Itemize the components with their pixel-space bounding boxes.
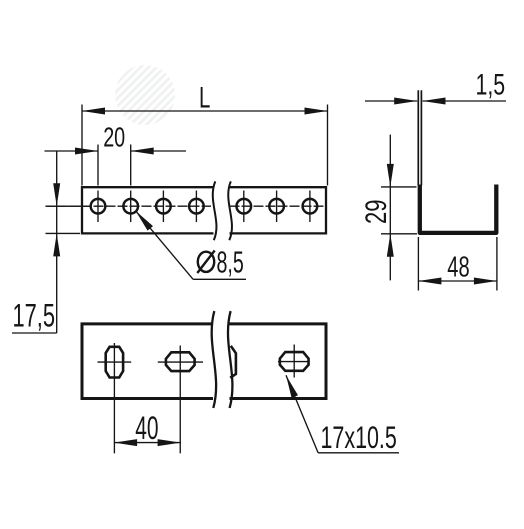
bottom edge extension left [46,232,81,234]
leader diameter 8.5 [136,211,194,280]
dimension 29 line [389,135,391,281]
hole 7 [303,199,318,214]
svg-text:20: 20 [103,121,125,152]
svg-text:8,5: 8,5 [217,245,244,280]
svg-text:17,5: 17,5 [13,298,56,334]
partial slot at break [230,346,236,378]
break lines top view [213,181,217,240]
hole 2 [123,199,138,214]
dimension 48 line [418,280,497,282]
break lines bottom view [212,311,216,408]
slot 3 (horizontal) [280,352,309,371]
dimension L line [82,110,328,112]
hole 4 [189,199,204,214]
dimension 17,5 line [56,151,58,333]
centerline extension left [46,205,91,207]
dimension 1,5 [365,100,417,102]
dimension 17,5 shelf [12,332,57,334]
top view centerline [46,205,212,207]
U channel profile [420,185,497,233]
wall thickness extension lines [417,90,419,185]
dimension 29 extension lines [381,186,417,188]
dimension 20 extension lines [97,145,99,186]
dimension 20 line [45,150,99,152]
svg-text:17x10.5: 17x10.5 [321,419,397,455]
hole 3 [156,199,171,214]
hole 1 [91,199,106,214]
diameter symbol [198,252,214,272]
hole 6 [269,199,284,214]
leader 17x10.5 [286,375,318,453]
hole 5 [237,199,252,214]
svg-text:29: 29 [360,200,393,225]
svg-text:L: L [199,82,210,115]
svg-text:1,5: 1,5 [476,69,506,102]
slot 2 (horizontal) [166,352,195,371]
svg-text:48: 48 [447,251,469,283]
slot 1 (vertical) [106,347,123,378]
top view outline left part [82,187,214,233]
svg-text:40: 40 [135,410,158,446]
bottom view outline right part [230,324,327,399]
dimension L extension lines [81,105,83,186]
dimension 40 line [114,442,181,444]
bottom view outline left part [82,324,213,399]
dimension 48 extension lines [417,237,419,291]
top view outline right part [230,187,327,233]
